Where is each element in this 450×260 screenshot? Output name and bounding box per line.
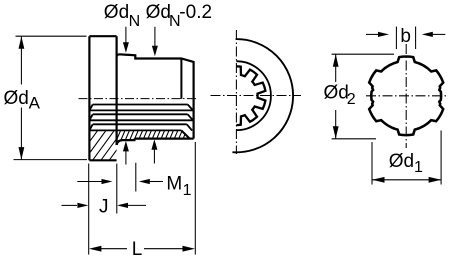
Od1 dimension line	[372, 179, 441, 181]
Od2 extension lines	[332, 53, 394, 55]
svg-text:2: 2	[347, 91, 356, 108]
svg-text:b: b	[400, 26, 411, 47]
svg-text:N: N	[129, 13, 141, 30]
middle view vertical centerline	[235, 30, 237, 154]
svg-text:M: M	[166, 174, 182, 195]
M1 leader arrow 1	[125, 150, 127, 165]
svg-text:1: 1	[414, 159, 423, 176]
svg-text:Ød: Ød	[104, 2, 129, 23]
serration band 1	[93, 104, 188, 106]
J dimension arrows	[62, 204, 78, 206]
flange bottom edge	[89, 159, 116, 161]
svg-text:Ød: Ød	[389, 151, 414, 172]
svg-text:A: A	[29, 94, 41, 113]
svg-text:J: J	[99, 196, 109, 217]
right view serrated shaft profile	[369, 56, 443, 135]
bore step bottom	[117, 139, 135, 145]
extension line step	[135, 163, 137, 192]
flange top edge	[89, 35, 116, 37]
serration band 2	[93, 113, 188, 115]
middle view outer arc	[232, 39, 293, 152]
middle view horizontal centerline	[211, 95, 302, 97]
leader arrow OdN-0.2	[154, 27, 156, 48]
svg-text:L: L	[132, 239, 143, 260]
right view horizontal centerline	[366, 95, 449, 97]
chamfer silhouette line	[180, 59, 182, 99]
svg-text:1: 1	[183, 182, 192, 199]
dimension OdA line	[20, 36, 22, 84]
middle view medium circle arc	[236, 61, 271, 130]
middle view serration profile	[236, 66, 265, 125]
svg-text:Ød: Ød	[146, 2, 171, 23]
right view vertical centerline	[405, 44, 407, 148]
serration band 3	[93, 123, 187, 125]
b dimension arrows	[366, 33, 381, 35]
neck and shaft top profile	[117, 54, 194, 138]
M1 dimension arrows	[77, 181, 102, 183]
L dimension line	[89, 246, 102, 252]
flange left edge	[88, 36, 90, 160]
left view centerline	[79, 98, 197, 100]
flange right face	[115, 36, 117, 145]
extension line right end	[194, 142, 196, 255]
leader arrow OdN	[125, 27, 127, 44]
bottom end chamfer	[181, 130, 189, 138]
extension line flange right	[116, 164, 118, 214]
bottom outer surface	[134, 138, 193, 140]
svg-text:-0.2: -0.2	[179, 2, 212, 23]
svg-text:Ød: Ød	[4, 88, 29, 109]
Od2 dimension line	[335, 54, 337, 82]
b extension lines	[395, 27, 397, 50]
dimension OdA extension lines	[16, 35, 87, 37]
extension line flange left	[88, 164, 90, 255]
Od1 extension lines	[371, 142, 373, 185]
M1 leader arrow 2	[153, 149, 155, 164]
svg-text:Ød: Ød	[324, 82, 349, 103]
